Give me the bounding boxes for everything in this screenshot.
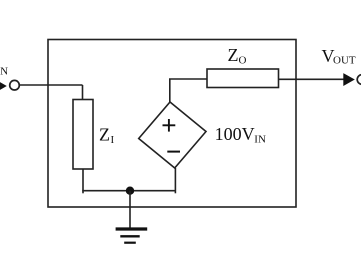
svg-text:OUT: OUT [333, 54, 356, 66]
svg-text:IN: IN [0, 66, 8, 78]
svg-text:Z: Z [99, 124, 110, 144]
svg-text:IN: IN [254, 133, 266, 145]
svg-text:Z: Z [228, 45, 239, 65]
svg-text:I: I [111, 134, 115, 146]
svg-text:100V: 100V [215, 124, 255, 144]
svg-text:O: O [239, 54, 247, 66]
